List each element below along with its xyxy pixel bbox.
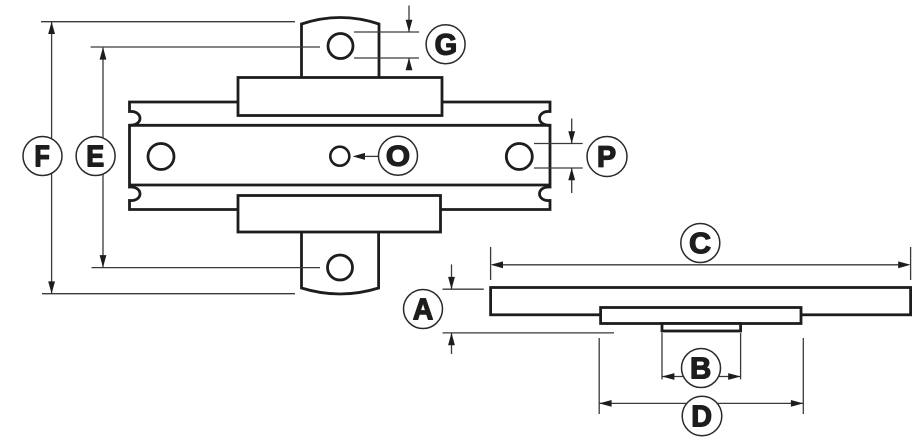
dimension A line upper [451, 264, 453, 289]
balloon D [682, 396, 722, 436]
bottom tab hole [328, 255, 353, 280]
dimension C line [493, 264, 909, 266]
dimension F arrow down [48, 281, 55, 293]
dimension F extension line bottom [42, 293, 295, 295]
rail left hole [148, 144, 174, 170]
balloon P [587, 137, 627, 177]
dimension F arrow up [48, 22, 55, 34]
dimension G extension lines [354, 32, 419, 58]
leader O arrow [353, 153, 365, 160]
leader O line [364, 155, 378, 157]
dimension B extension lines [662, 333, 741, 379]
rail right hole [506, 144, 532, 170]
dimension A reference line top [443, 288, 484, 290]
dimension B arrow right [728, 373, 740, 380]
dimension E line [102, 48, 104, 268]
balloon G [426, 25, 465, 64]
dimension P extension lines [534, 144, 583, 169]
dimension D line [599, 402, 803, 404]
side view small tab [662, 324, 741, 332]
rail inner fold line lower [130, 184, 551, 187]
dimension E extension line top [91, 46, 320, 48]
bottom bracket plate [238, 196, 441, 233]
dimension A reference line bottom [443, 332, 615, 334]
dimension G arrow up [406, 58, 413, 70]
balloon F [23, 137, 62, 176]
dimension D arrow left [599, 400, 611, 407]
balloon E [76, 137, 115, 176]
dimension C arrow right [898, 261, 910, 268]
balloon O [379, 136, 418, 175]
balloon C [681, 224, 720, 263]
bottom mounting tab [302, 231, 379, 294]
dimension E arrow down [100, 255, 107, 267]
dimension D arrow right [791, 400, 803, 407]
dimension E arrow up [100, 47, 107, 59]
dimension P line lower [571, 168, 573, 193]
dimension P arrow down [568, 131, 575, 143]
rail inner fold line upper [130, 124, 551, 127]
dimension B line [662, 376, 741, 378]
dimension E extension line bottom [92, 267, 321, 269]
rail body outline with break notches [130, 102, 551, 210]
rail small center hole O [330, 147, 349, 166]
balloon B [682, 349, 721, 388]
top tab hole [328, 34, 353, 59]
dimension F line [51, 22, 53, 294]
dimension P line upper [571, 119, 573, 144]
side view long bar [491, 288, 911, 315]
dimension D extension lines [599, 338, 803, 414]
dimension A line lower [451, 333, 453, 354]
balloon A [404, 290, 443, 329]
side view middle plate [601, 308, 801, 324]
dimension B arrow left [662, 373, 674, 380]
dimension G line lower [408, 58, 410, 70]
dimension A arrow down [448, 277, 455, 289]
dimension C arrow left [491, 261, 503, 268]
dimension G arrow down [406, 20, 413, 32]
dimension A arrow up [448, 333, 455, 345]
top bracket plate [238, 78, 442, 116]
dimension C witness lines [491, 247, 911, 280]
top mounting tab [302, 18, 380, 79]
dimension P arrow up [568, 168, 575, 180]
dimension F extension line top [41, 21, 295, 23]
dimension G line upper [408, 6, 410, 33]
